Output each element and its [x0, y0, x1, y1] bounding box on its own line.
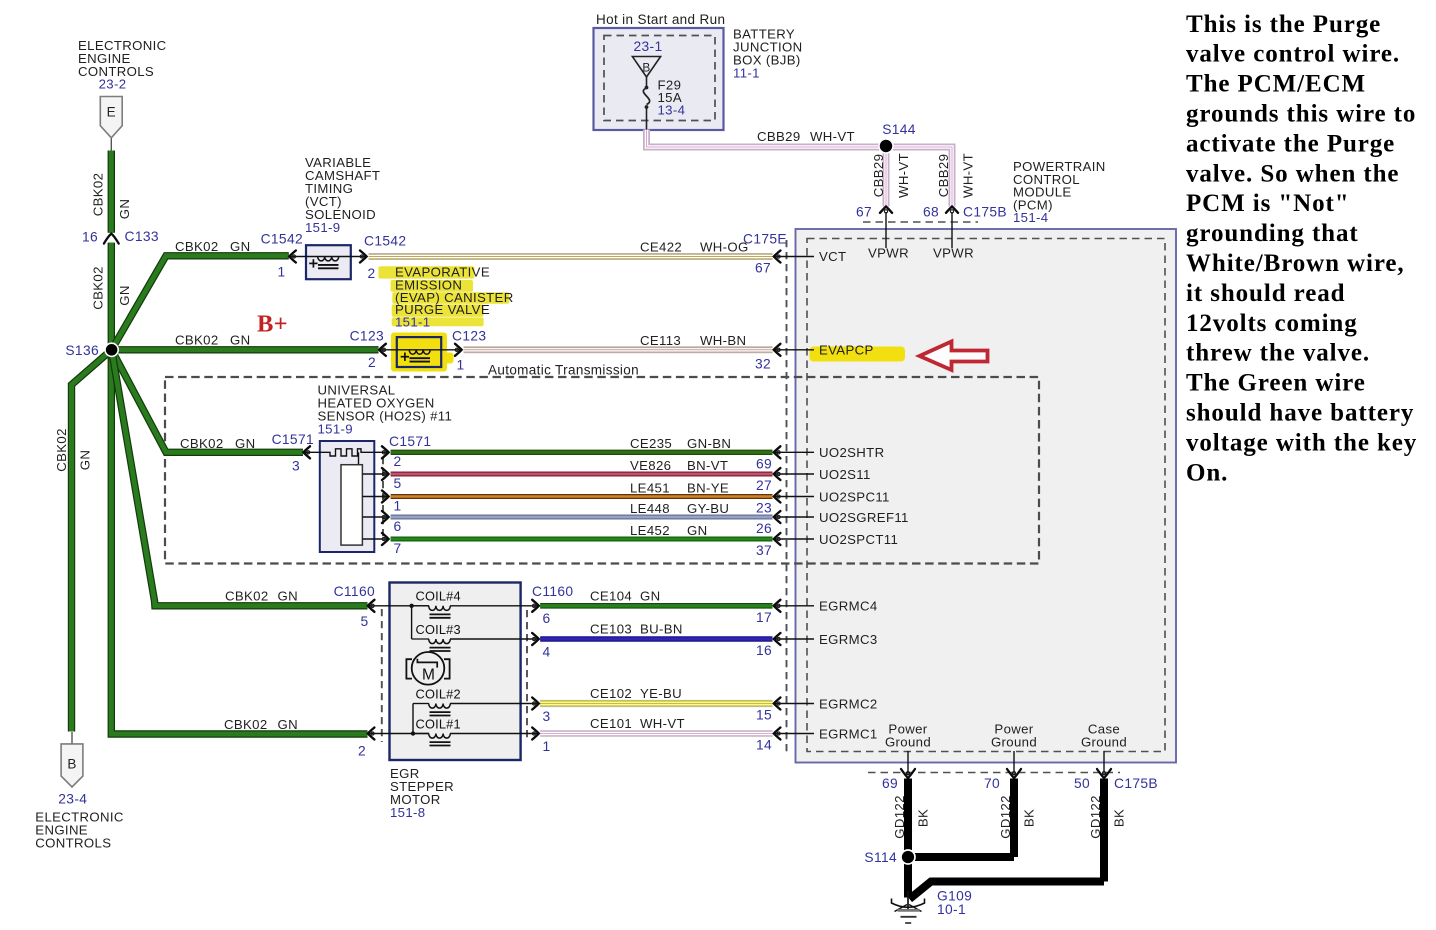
svg-text:151-4: 151-4 [1013, 210, 1048, 225]
svg-text:should have battery: should have battery [1186, 400, 1414, 427]
svg-text:Automatic Transmission: Automatic Transmission [488, 363, 639, 378]
svg-text:67: 67 [856, 204, 872, 219]
svg-text:voltage with the key: voltage with the key [1186, 429, 1417, 456]
svg-text:7: 7 [393, 541, 401, 556]
svg-text:grounding that: grounding that [1186, 220, 1359, 247]
svg-text:CBB29: CBB29 [871, 154, 886, 198]
svg-text:C175B: C175B [963, 204, 1007, 219]
svg-text:M: M [422, 667, 435, 684]
svg-text:On.: On. [1186, 459, 1228, 486]
svg-text:WH-VT: WH-VT [640, 716, 685, 731]
svg-text:valve. So when the: valve. So when the [1186, 160, 1399, 187]
svg-text:2: 2 [367, 266, 375, 281]
svg-text:151-1: 151-1 [395, 315, 430, 330]
svg-text:COIL#3: COIL#3 [416, 622, 461, 637]
svg-text:C1571: C1571 [389, 434, 431, 449]
svg-text:17: 17 [756, 610, 772, 625]
svg-text:LE448: LE448 [630, 501, 670, 516]
svg-text:BK: BK [916, 809, 931, 827]
svg-text:CBK02: CBK02 [225, 588, 269, 603]
svg-text:32: 32 [755, 357, 771, 372]
svg-text:C123: C123 [452, 329, 486, 344]
svg-text:BK: BK [1112, 809, 1127, 827]
svg-text:LE452: LE452 [630, 523, 670, 538]
svg-text:EGRMC1: EGRMC1 [819, 726, 878, 741]
svg-text:C1160: C1160 [334, 584, 375, 599]
svg-text:GN: GN [230, 333, 250, 348]
svg-text:12volts coming: 12volts coming [1186, 310, 1358, 337]
svg-text:CE103: CE103 [590, 622, 632, 637]
svg-text:Ground: Ground [1081, 734, 1127, 749]
svg-text:23: 23 [756, 501, 772, 516]
svg-text:EGRMC2: EGRMC2 [819, 696, 878, 711]
svg-text:3: 3 [292, 459, 300, 474]
svg-text:70: 70 [984, 776, 1000, 791]
svg-text:1: 1 [277, 265, 285, 280]
svg-text:CBK02: CBK02 [54, 428, 69, 472]
svg-text:23-4: 23-4 [58, 792, 87, 807]
svg-text:6: 6 [393, 519, 401, 534]
svg-text:Ground: Ground [885, 734, 931, 749]
svg-text:threw the valve.: threw the valve. [1186, 340, 1370, 367]
svg-text:White/Brown wire,: White/Brown wire, [1186, 250, 1405, 277]
svg-text:WH-VT: WH-VT [896, 153, 911, 198]
svg-text:GN: GN [117, 199, 132, 219]
svg-text:151-8: 151-8 [390, 805, 425, 820]
svg-text:C1542: C1542 [261, 232, 303, 247]
svg-text:67: 67 [755, 261, 771, 276]
svg-text:Hot in Start and Run: Hot in Start and Run [596, 12, 725, 27]
svg-text:EGRMC4: EGRMC4 [819, 599, 878, 614]
svg-text:CE113: CE113 [640, 333, 681, 348]
svg-text:VCT: VCT [819, 249, 846, 264]
svg-text:UO2SPC11: UO2SPC11 [819, 489, 890, 504]
svg-text:valve control wire.: valve control wire. [1186, 41, 1400, 68]
svg-text:GN: GN [640, 588, 660, 603]
svg-text:BN-YE: BN-YE [687, 480, 729, 495]
svg-text:C1571: C1571 [272, 432, 314, 447]
svg-text:CBB29: CBB29 [757, 129, 801, 144]
svg-text:1: 1 [393, 498, 401, 513]
svg-text:GN-BN: GN-BN [687, 436, 731, 451]
svg-text:grounds this wire to: grounds this wire to [1186, 101, 1416, 128]
svg-text:GY-BU: GY-BU [687, 501, 729, 516]
svg-text:CBK02: CBK02 [180, 436, 224, 451]
svg-text:YE-BU: YE-BU [640, 686, 682, 701]
svg-text:Ground: Ground [991, 734, 1037, 749]
svg-text:CE101: CE101 [590, 716, 632, 731]
svg-text:14: 14 [756, 738, 772, 753]
svg-text:WH-BN: WH-BN [700, 333, 746, 348]
svg-text:UO2S11: UO2S11 [819, 467, 871, 482]
svg-text:GN: GN [235, 436, 255, 451]
svg-text:GN: GN [78, 450, 93, 470]
svg-text:C175B: C175B [1114, 776, 1158, 791]
svg-text:69: 69 [882, 776, 898, 791]
svg-text:VE826: VE826 [630, 458, 671, 473]
svg-text:CE235: CE235 [630, 436, 672, 451]
svg-text:GD122: GD122 [998, 795, 1013, 839]
svg-text:2: 2 [368, 355, 376, 370]
svg-text:UO2SGREF11: UO2SGREF11 [819, 510, 909, 525]
svg-text:BK: BK [1022, 809, 1037, 827]
svg-text:activate the Purge: activate the Purge [1186, 130, 1395, 157]
svg-text:COIL#2: COIL#2 [416, 686, 461, 701]
svg-text:E: E [107, 105, 116, 120]
svg-text:13-4: 13-4 [658, 103, 686, 118]
svg-text:CE104: CE104 [590, 588, 632, 603]
svg-text:C133: C133 [125, 229, 159, 244]
svg-text:151-9: 151-9 [305, 220, 340, 235]
svg-text:69: 69 [756, 457, 772, 472]
svg-text:GN: GN [278, 588, 298, 603]
svg-text:WH-VT: WH-VT [961, 153, 976, 198]
svg-text:CBK02: CBK02 [175, 239, 219, 254]
svg-text:WH-VT: WH-VT [810, 129, 855, 144]
svg-text:37: 37 [756, 543, 772, 558]
svg-text:16: 16 [82, 229, 98, 244]
svg-text:10-1: 10-1 [937, 902, 966, 917]
svg-text:S114: S114 [864, 850, 897, 865]
svg-text:CONTROLS: CONTROLS [35, 835, 111, 850]
svg-text:2: 2 [393, 454, 401, 469]
svg-text:CBK02: CBK02 [91, 266, 106, 310]
svg-text:This is the Purge: This is the Purge [1186, 11, 1381, 38]
svg-text:27: 27 [756, 478, 772, 493]
svg-text:CBK02: CBK02 [175, 333, 219, 348]
svg-text:1: 1 [456, 358, 464, 373]
svg-text:23-1: 23-1 [633, 39, 662, 54]
svg-text:11-1: 11-1 [733, 66, 760, 81]
svg-text:C123: C123 [350, 329, 384, 344]
svg-text:6: 6 [542, 611, 550, 626]
svg-text:COIL#1: COIL#1 [416, 716, 461, 731]
svg-text:3: 3 [542, 709, 550, 724]
svg-text:EVAPCP: EVAPCP [819, 343, 874, 358]
svg-text:BN-VT: BN-VT [687, 458, 728, 473]
svg-text:2: 2 [358, 744, 366, 759]
svg-text:16: 16 [756, 643, 772, 658]
svg-text:CE102: CE102 [590, 686, 632, 701]
svg-text:5: 5 [393, 476, 401, 491]
svg-text:S144: S144 [882, 122, 916, 137]
svg-text:26: 26 [756, 521, 772, 536]
svg-text:BU-BN: BU-BN [640, 622, 683, 637]
svg-text:LE451: LE451 [630, 480, 670, 495]
svg-text:5: 5 [360, 614, 368, 629]
svg-text:1: 1 [542, 739, 550, 754]
svg-text:C1542: C1542 [364, 234, 406, 249]
svg-text:COIL#4: COIL#4 [416, 589, 461, 604]
svg-text:UO2SHTR: UO2SHTR [819, 445, 884, 460]
svg-text:68: 68 [923, 204, 939, 219]
svg-text:EGRMC3: EGRMC3 [819, 632, 878, 647]
svg-text:GN: GN [117, 285, 132, 305]
svg-text:GD122: GD122 [1088, 795, 1103, 839]
svg-text:23-2: 23-2 [99, 76, 127, 91]
svg-text:B+: B+ [257, 311, 288, 338]
svg-text:GD122: GD122 [892, 795, 907, 839]
svg-text:CBB29: CBB29 [936, 154, 951, 198]
svg-text:C1160: C1160 [532, 584, 573, 599]
svg-text:B: B [642, 61, 650, 75]
svg-text:4: 4 [542, 644, 550, 659]
svg-text:it should read: it should read [1186, 280, 1345, 307]
svg-text:50: 50 [1074, 776, 1090, 791]
svg-text:PCM is "Not": PCM is "Not" [1186, 190, 1350, 217]
svg-text:CE422: CE422 [640, 240, 682, 255]
svg-text:VPWR: VPWR [933, 246, 974, 261]
svg-text:UO2SPCT11: UO2SPCT11 [819, 532, 898, 547]
svg-text:B: B [67, 757, 76, 772]
svg-text:The Green wire: The Green wire [1186, 370, 1366, 397]
svg-text:CBK02: CBK02 [224, 717, 268, 732]
svg-text:S136: S136 [65, 343, 99, 358]
svg-text:15: 15 [756, 708, 772, 723]
svg-text:GN: GN [230, 239, 250, 254]
svg-text:151-9: 151-9 [318, 422, 353, 437]
svg-text:CBK02: CBK02 [91, 173, 106, 217]
svg-text:GN: GN [687, 523, 707, 538]
svg-text:C175E: C175E [743, 232, 787, 247]
svg-text:WH-OG: WH-OG [700, 240, 749, 255]
svg-text:VPWR: VPWR [868, 246, 909, 261]
svg-text:The PCM/ECM: The PCM/ECM [1186, 71, 1366, 98]
svg-text:GN: GN [278, 717, 298, 732]
